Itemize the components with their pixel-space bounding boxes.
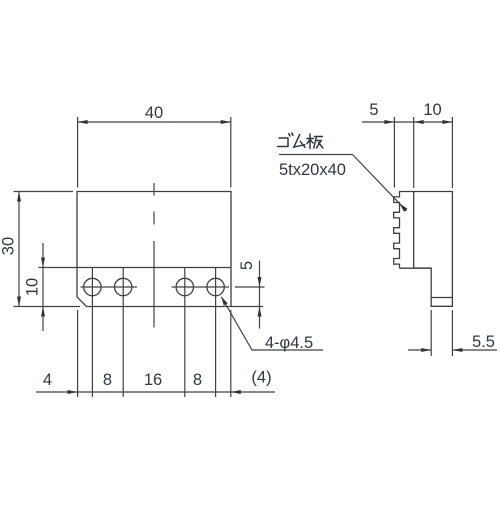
rubber plate leader diagonal xyxy=(353,155,407,211)
hole centerline left pair xyxy=(81,286,138,288)
side view dim extension block-right xyxy=(451,117,453,188)
arrow dim10 bottom (up) xyxy=(41,307,45,317)
bottom chain extension right edge xyxy=(230,310,232,397)
hole centerline extension right xyxy=(235,286,265,288)
svg-text:30: 30 xyxy=(0,237,18,255)
leader line 4-phi4.5 xyxy=(222,297,324,350)
bottom chain dimension line xyxy=(36,391,275,393)
dim 5.5 line left tail xyxy=(408,349,431,351)
hole H3 xyxy=(176,278,193,295)
arrow leader 4-phi4.5 xyxy=(221,296,228,305)
label gomu-ban glyph MU xyxy=(293,135,305,148)
dim 5.5 line right tail xyxy=(452,349,497,351)
dim 40 extension right xyxy=(230,117,232,188)
label gomu-ban glyph GO xyxy=(278,133,294,147)
svg-text:8: 8 xyxy=(103,371,112,389)
vertical centerline of front view xyxy=(153,183,155,328)
dim 40 extension left xyxy=(77,117,79,188)
dim 5.5 extension right xyxy=(451,310,453,356)
dim 30 line xyxy=(18,192,20,307)
svg-text:4-φ4.5: 4-φ4.5 xyxy=(265,334,313,352)
side view top dimension line xyxy=(362,121,452,123)
arrow dim30 top xyxy=(17,192,21,202)
svg-text:5: 5 xyxy=(369,101,378,119)
svg-text:40: 40 xyxy=(145,104,163,122)
arrow rubber plate leader xyxy=(399,203,407,212)
dim 30 extension top xyxy=(14,191,74,193)
label gomu-ban glyph ITA xyxy=(307,134,323,149)
rubber plate leader horizontal xyxy=(279,154,353,156)
arrow bottom chain left (right-pointing) xyxy=(68,390,78,394)
hole H2 xyxy=(115,278,132,295)
hole vertical line 1 xyxy=(91,268,93,398)
arrow dim10 top (down) xyxy=(41,258,45,268)
arrow bottom chain right (left-pointing) xyxy=(231,390,241,394)
svg-text:16: 16 xyxy=(144,371,162,389)
arrow side dim 10 left (left-pointing) xyxy=(414,120,424,124)
arrow side dim 5 (right-pointing) xyxy=(384,120,394,124)
hole H1 xyxy=(84,278,101,295)
dim 30 extension bottom xyxy=(14,306,81,308)
dim 5.5 extension left xyxy=(430,310,432,356)
arrow dim5 bottom (up) xyxy=(258,307,262,317)
dim 5 line (front right) xyxy=(259,261,261,329)
dim 5 bottom extension (front right) xyxy=(231,306,263,308)
front view outline xyxy=(77,192,231,307)
side view leg chamfer line xyxy=(431,297,452,299)
side view dim extension plate-left xyxy=(393,117,395,188)
arrow dim5 top (down) xyxy=(258,277,262,287)
hole centerline right pair xyxy=(172,286,230,288)
bottom chain extension left edge xyxy=(77,310,79,397)
front view strip top edge xyxy=(77,267,231,269)
svg-text:10: 10 xyxy=(423,101,441,119)
svg-text:4: 4 xyxy=(43,371,52,389)
side view dim extension block-left xyxy=(413,117,415,188)
arrow dim30 bottom xyxy=(17,297,21,307)
hole vertical line 2 xyxy=(122,268,124,398)
arrow dim40 left xyxy=(78,120,88,124)
svg-text:8: 8 xyxy=(193,371,202,389)
dim 10 extension top xyxy=(39,267,78,269)
rubber plate serrated outline xyxy=(394,192,414,269)
hole vertical line 4 xyxy=(215,268,217,398)
side view block outline xyxy=(414,192,453,307)
svg-text:5: 5 xyxy=(238,261,256,270)
arrow dim5.5 right (left-pointing) xyxy=(452,348,462,352)
svg-text:10: 10 xyxy=(24,278,42,296)
hole H4 xyxy=(207,278,224,295)
hole vertical line 3 xyxy=(184,268,186,398)
dim 40 line xyxy=(78,121,231,123)
svg-text:5.5: 5.5 xyxy=(472,333,495,351)
arrow dim5.5 left (right-pointing) xyxy=(421,348,431,352)
arrow dim40 right xyxy=(221,120,231,124)
svg-text:5tx20x40: 5tx20x40 xyxy=(279,161,346,179)
svg-text:(4): (4) xyxy=(251,369,271,387)
dim 10 line xyxy=(42,243,44,331)
rubber plate bottom / step line xyxy=(400,267,432,269)
arrow side dim 10 right (right-pointing) xyxy=(442,120,452,124)
